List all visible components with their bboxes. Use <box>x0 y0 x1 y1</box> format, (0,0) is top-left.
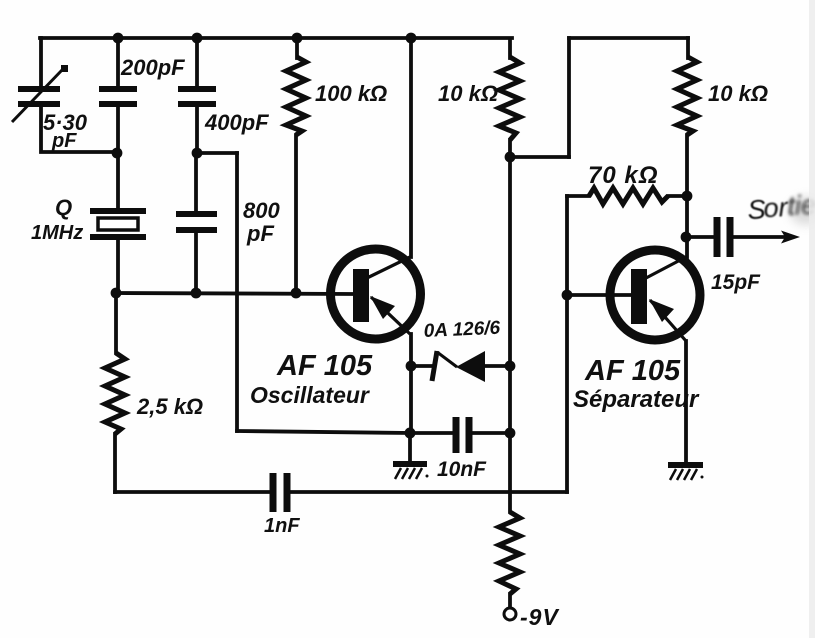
wire 10k-2 node to output node <box>685 196 689 237</box>
wire 10nF left lead <box>410 431 452 435</box>
node 10k-1 bottom <box>505 152 516 163</box>
wire T1 collector vertical <box>409 38 413 257</box>
wire variable capacitor bottom to node A <box>41 107 116 152</box>
wire node B to bypass line corner <box>197 151 237 155</box>
svg-text:200pF: 200pF <box>120 55 185 80</box>
wire ground stub T1 <box>408 433 412 461</box>
node diode left <box>406 361 417 372</box>
wire 400pF top lead <box>195 38 199 86</box>
ground G1 at T1 emitter <box>393 464 429 479</box>
node emitter ground 10nF <box>405 428 416 439</box>
node diode right <box>505 361 516 372</box>
node T2 base <box>562 290 573 301</box>
node base bus crystal <box>111 288 122 299</box>
svg-text:10 kΩ: 10 kΩ <box>438 81 498 106</box>
output arrow Sortie <box>781 231 800 244</box>
wire 100k bottom lead <box>294 135 298 293</box>
wire 10k-2 top lead <box>686 38 690 58</box>
node top collector riser <box>406 33 417 44</box>
wire 200pF top lead <box>116 38 120 86</box>
svg-text:800: 800 <box>243 198 280 223</box>
wire 10k-1 top lead <box>508 40 512 58</box>
wire 10nF right lead <box>473 431 510 435</box>
capacitor C1 200pF plates <box>99 89 137 104</box>
terminal -9V <box>504 608 516 620</box>
wire supply riser x=569 <box>567 38 571 157</box>
label Sortie <box>747 190 815 226</box>
wire 70k left lead <box>567 194 589 198</box>
node base bus 800pF <box>191 288 202 299</box>
svg-text:AF 105: AF 105 <box>276 350 373 382</box>
node top 200pF <box>113 33 124 44</box>
wire 70k right lead <box>668 194 688 198</box>
resistor R3 10k right <box>677 57 697 135</box>
svg-text:10nF: 10nF <box>437 458 487 481</box>
wire bypass horizontal to emitter node <box>237 431 410 433</box>
wire top rail left <box>40 36 512 40</box>
node 70k right <box>682 191 693 202</box>
wire 2.5k top lead <box>114 293 118 353</box>
svg-text:0A 126/6: 0A 126/6 <box>423 318 501 342</box>
node output 15pF <box>681 232 692 243</box>
svg-text:AF 105: AF 105 <box>584 355 681 387</box>
wire 2.5k bottom lead <box>113 434 117 492</box>
wire node 10k-1 to supply riser <box>510 155 569 159</box>
wire T1 emitter vertical <box>409 334 413 365</box>
resistor R4 70k horizontal <box>589 188 668 204</box>
wire output node to T2 collector <box>685 237 689 257</box>
wire crystal bottom lead <box>116 240 120 293</box>
transistor Q3 AF105 separator <box>610 250 700 341</box>
wire 10k-2 bottom lead <box>685 135 689 196</box>
capacitor CV 5-30pF variable plates <box>18 89 60 104</box>
resistor R1 100k <box>286 57 306 135</box>
wire bypass vertical x=237 <box>235 153 239 431</box>
node top 100k <box>292 33 303 44</box>
svg-text:70 kΩ: 70 kΩ <box>588 162 658 189</box>
wire 800pF bottom lead <box>194 233 198 293</box>
resistor R5 2.5k <box>105 353 125 434</box>
wire output lead left of 15pF <box>686 235 713 239</box>
capacitor C5 1nF plates <box>273 473 287 512</box>
wire T1 emitter to ground node <box>409 365 413 433</box>
svg-text:pF: pF <box>51 130 77 152</box>
wire T2 base lead <box>567 293 631 297</box>
wire diode left lead <box>411 364 431 368</box>
wire 10k-1 bottom lead <box>508 140 512 157</box>
svg-text:pF: pF <box>246 221 274 246</box>
capacitor C3 800pF plates <box>176 214 217 230</box>
svg-text:Oscillateur: Oscillateur <box>250 382 370 408</box>
capacitor CV arrow <box>12 65 68 122</box>
wire 800pF top lead <box>194 153 198 211</box>
svg-text:or: or <box>763 192 790 223</box>
wire left rail down to variable capacitor <box>39 38 43 86</box>
node top 400pF <box>192 33 203 44</box>
wire 200pF bottom lead <box>116 107 120 153</box>
svg-text:400pF: 400pF <box>204 110 269 135</box>
svg-text:-9V: -9V <box>520 604 559 630</box>
wire output lead right of 15pF <box>734 235 787 239</box>
svg-text:1nF: 1nF <box>264 515 300 537</box>
crystal Q1 1MHz <box>90 211 146 237</box>
wire diode right lead <box>485 364 510 368</box>
wire main negative rail x=510 <box>508 157 512 512</box>
svg-text:1MHz: 1MHz <box>31 222 83 244</box>
scan smudge near Sortie <box>790 197 815 225</box>
wire bottom bus right of 1nF <box>291 490 567 494</box>
capacitor C4 10nF plates <box>456 417 469 453</box>
svg-text:10 kΩ: 10 kΩ <box>708 81 768 106</box>
wire bottom bus left of 1nF <box>115 490 269 494</box>
wire 400pF bottom lead <box>195 107 199 153</box>
node B 400pF/800pF <box>192 148 203 159</box>
wire T2 emitter vertical <box>684 341 688 462</box>
node A varcap/200pF/crystal <box>112 148 123 159</box>
capacitor C6 15pF plates <box>717 217 730 257</box>
svg-text:15pF: 15pF <box>711 271 761 294</box>
transistor Q2 AF105 oscillator <box>331 249 421 339</box>
scan artifact right edge <box>809 0 815 638</box>
wire top rail right <box>569 36 688 40</box>
resistor R6 to -9V <box>499 512 520 594</box>
capacitor C2 400pF plates <box>178 89 216 104</box>
svg-text:Q: Q <box>55 195 72 220</box>
node base bus 100k <box>291 288 302 299</box>
wire base bus T1 <box>116 293 353 294</box>
node 10nF right <box>505 428 516 439</box>
wire T2 base vertical <box>565 196 569 492</box>
svg-text:Séparateur: Séparateur <box>573 386 700 413</box>
diode D1 OA126/6 <box>432 351 485 382</box>
resistor R2 10k left <box>499 57 520 140</box>
svg-text:2,5 kΩ: 2,5 kΩ <box>136 394 203 419</box>
ground G2 at T2 emitter <box>668 465 704 480</box>
svg-text:100 kΩ: 100 kΩ <box>315 81 387 106</box>
wire -9V lead <box>508 594 512 607</box>
wire crystal top lead <box>116 153 120 208</box>
wire 100k top lead <box>295 38 299 58</box>
